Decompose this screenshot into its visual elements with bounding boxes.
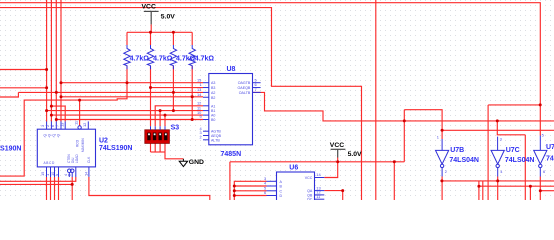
wire U6 QA out [324, 191, 342, 200]
comparator U8 7485N [197, 66, 261, 158]
wire S3 pin4 bottom stub [164, 143, 166, 152]
inverter U7B 74LS04N [436, 135, 479, 177]
node J8 [149, 86, 152, 89]
svg-text:OAEQB: OAEQB [238, 86, 251, 90]
svg-text:5: 5 [542, 133, 544, 138]
svg-text:B1: B1 [211, 109, 215, 113]
svg-text:MAX/MIN: MAX/MIN [81, 138, 85, 152]
svg-text:74: 74 [546, 156, 554, 163]
wire S3 to GND [165, 152, 183, 159]
svg-text:A1: A1 [211, 104, 215, 108]
svg-text:OALTB: OALTB [239, 91, 251, 95]
wire resistor rail [127, 31, 192, 33]
wire U2 pin14 route [89, 177, 210, 200]
wire branch to U2 LOAD bubble [79, 100, 81, 126]
wire U6 D branch [234, 195, 266, 197]
inverter U7C 74LS04N [491, 137, 534, 177]
node J4 [78, 99, 81, 102]
svg-text:12: 12 [82, 123, 87, 127]
node J21 [172, 31, 175, 34]
ground [179, 159, 187, 167]
wire to U2 pin5 top [51, 106, 65, 121]
svg-text:1: 1 [437, 135, 439, 140]
svg-text:2: 2 [445, 169, 447, 174]
svg-text:S3: S3 [171, 125, 180, 132]
svg-text:GND: GND [189, 159, 204, 166]
svg-text:CLK: CLK [87, 156, 91, 163]
wire bus vertical 2 [50, 0, 52, 122]
wire net B1 [47, 110, 203, 112]
svg-text:VCC: VCC [305, 176, 313, 180]
svg-text:LOAD: LOAD [75, 154, 79, 163]
svg-text:5: 5 [67, 174, 72, 176]
svg-text:A B C D: A B C D [44, 161, 55, 165]
wire U2 bottom pin C [54, 177, 56, 200]
wire S3 pin2 bottom stub [154, 143, 156, 152]
node J9 [55, 91, 58, 94]
node J12 [191, 95, 194, 98]
svg-text:VCC: VCC [330, 142, 344, 149]
wire left stub to node B [0, 87, 47, 89]
svg-text:9: 9 [200, 114, 202, 119]
node J5 [71, 183, 74, 186]
node J28 [233, 189, 236, 192]
node J31 [440, 179, 443, 182]
svg-text:11: 11 [74, 121, 79, 125]
node J29 [233, 194, 236, 197]
wire staircase from R1 to left edge [0, 66, 127, 176]
wire drop at 394 [393, 162, 395, 200]
node J15 [55, 118, 58, 121]
wire mid vertical riser [403, 110, 405, 162]
node J22 [403, 119, 406, 122]
svg-text:U7C: U7C [506, 147, 520, 154]
resistor R6 4.7k [147, 45, 153, 69]
wire U2 bottom pin D [58, 177, 60, 200]
node J33 [477, 185, 480, 188]
wire branch at U7B input [442, 129, 554, 131]
resistor R7 4.7k [170, 45, 176, 69]
node J34 [529, 185, 532, 188]
svg-text:74LS190N: 74LS190N [99, 145, 132, 152]
wire U6 B branch [234, 185, 266, 187]
node J3 [45, 109, 48, 112]
wire U6 input feed vertical [234, 181, 266, 200]
wire OALTB long route [253, 92, 554, 121]
svg-text:7: 7 [255, 87, 257, 92]
node J16 [159, 109, 162, 112]
wire output bus H1 [442, 180, 554, 182]
node J11 [60, 95, 63, 98]
wire U2 bottom pin A [46, 177, 48, 200]
wire bus vertical 4 [60, 0, 62, 122]
wire U7C output [497, 177, 499, 201]
wire drop 483 [482, 181, 484, 200]
svg-text:74LS190N: 74LS190N [0, 146, 21, 153]
wire U2 lower pin b [0, 177, 72, 184]
svg-text:A0: A0 [211, 114, 215, 118]
svg-text:2: 2 [200, 135, 202, 140]
node J6 [60, 81, 63, 84]
wire drop 479 [478, 181, 480, 200]
wire net A2 [0, 92, 203, 97]
svg-text:C: C [280, 189, 283, 193]
wire tap to border [488, 104, 540, 106]
wire net B0 [56, 119, 203, 121]
node J24 [441, 129, 444, 132]
wire R4 column [191, 66, 193, 120]
wire bus vertical 3 [55, 0, 57, 122]
wire R2 top lead [150, 32, 152, 45]
wire S3 pin3 bottom stub [159, 143, 161, 152]
svg-text:6: 6 [543, 169, 545, 174]
svg-text:ALTB: ALTB [211, 138, 220, 142]
wire long vertical [375, 0, 377, 200]
wire S3 pin3 drop [159, 111, 161, 127]
wire S3 bottom rail [151, 151, 166, 153]
svg-text:13: 13 [60, 123, 65, 127]
wire left stub to node [0, 69, 47, 71]
svg-text:U8: U8 [227, 66, 236, 73]
wire net A1 [155, 106, 203, 127]
svg-text:VCC: VCC [142, 4, 156, 11]
wire S3 pin4 drop [164, 115, 166, 126]
node J36 [539, 189, 542, 192]
node J19 [191, 118, 194, 121]
svg-text:RCO: RCO [76, 139, 80, 147]
resistor R8 4.7k [189, 45, 195, 69]
wire U7D output [539, 177, 541, 201]
svg-text:5.0V: 5.0V [348, 151, 362, 158]
node J32 [496, 179, 499, 182]
wire R3 top lead [172, 32, 174, 45]
resistor R5 4.7k [124, 45, 130, 69]
svg-text:B0: B0 [211, 118, 215, 122]
wire drop from U7C riser [524, 135, 526, 200]
wire net B3 [151, 87, 204, 89]
node J10 [172, 91, 175, 94]
svg-text:B3: B3 [211, 86, 215, 90]
wire R4 top lead [191, 32, 193, 45]
power symbol VCC1 [144, 11, 159, 24]
svg-text:74LS04N: 74LS04N [449, 157, 479, 164]
node J13 [50, 105, 53, 108]
svg-text:D: D [280, 194, 283, 198]
svg-text:4.7kΩ: 4.7kΩ [195, 55, 215, 62]
wire right vertical 488 [487, 105, 489, 200]
wire vertical past U6 [229, 162, 231, 200]
wire S3 pin1 bottom stub [150, 143, 152, 152]
svg-text:4.7kΩ: 4.7kΩ [130, 55, 150, 62]
wire U7D out branch [540, 190, 554, 192]
svg-text:QC: QC [307, 198, 313, 200]
node J7 [126, 81, 129, 84]
wire bus vertical 1 [46, 0, 48, 122]
wire U2 lower pin a [0, 177, 76, 181]
wire R1 top lead [126, 32, 128, 45]
wire U2 bottom pin B [50, 177, 52, 200]
svg-text:A3: A3 [211, 81, 215, 85]
wire U6 C branch [234, 190, 266, 192]
inverter U7D 74LS04N [534, 133, 554, 177]
wire to U7B input [404, 110, 442, 139]
wire continues below pin junction [71, 184, 73, 200]
wire net A3 [61, 82, 203, 84]
svg-text:U2: U2 [99, 137, 108, 144]
decoder U6 [264, 164, 324, 201]
wire top border to U7D input [0, 3, 540, 136]
node J1 [45, 68, 48, 71]
wire VCC1 drop [150, 24, 152, 32]
wire U7B output [441, 177, 443, 201]
wire VCC2 to U6 pin14 [324, 158, 337, 178]
svg-text:5.0V: 5.0V [161, 14, 175, 21]
wire drop 530 [529, 186, 531, 200]
node J30 [341, 189, 344, 192]
svg-text:U7B: U7B [450, 147, 464, 154]
node J17 [172, 109, 175, 112]
wire lower-right horizontal [479, 185, 554, 187]
svg-text:7485N: 7485N [221, 151, 242, 158]
svg-text:3: 3 [500, 137, 502, 142]
svg-text:OAGTB: OAGTB [238, 81, 251, 85]
wire horizontal lower right of U6 [230, 161, 404, 163]
power symbol VCC2 [331, 149, 346, 157]
wire R2 column to S3 pin1 [150, 66, 152, 126]
svg-text:74LS04N: 74LS04N [505, 157, 535, 164]
counter U2 74LS190N [37, 121, 132, 177]
wire second border route [0, 8, 362, 200]
node J20 [149, 31, 152, 34]
node J14 [50, 114, 53, 117]
wire net A0 [51, 114, 203, 116]
svg-text:Q² Q³ Qº Q¹: Q² Q³ Qº Q¹ [44, 134, 61, 138]
node J35 [539, 103, 542, 106]
wire U7C input riser [497, 121, 525, 135]
svg-text:U6: U6 [289, 164, 298, 171]
dip switch S3 [145, 125, 179, 144]
svg-text:U7D: U7D [546, 144, 554, 151]
wire R3 column [172, 66, 174, 111]
node J2 [45, 86, 48, 89]
node J26 [393, 160, 396, 163]
svg-text:9: 9 [55, 174, 60, 176]
svg-text:B2: B2 [211, 96, 215, 100]
node J27 [233, 185, 236, 188]
svg-text:6: 6 [264, 190, 266, 195]
node J23 [496, 119, 499, 122]
svg-text:11: 11 [316, 194, 320, 199]
node J25 [336, 160, 339, 163]
node J18 [164, 114, 167, 117]
svg-text:A2: A2 [211, 91, 215, 95]
wire net B2 [61, 96, 203, 98]
